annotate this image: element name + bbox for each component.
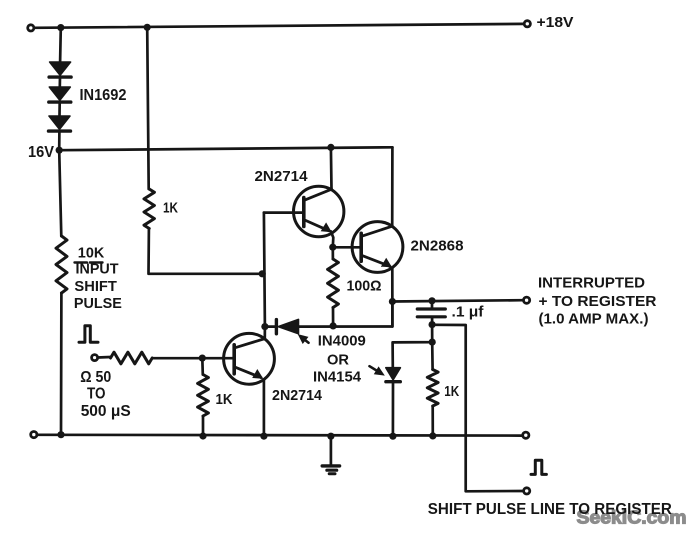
wire D1-D2 [58,77,61,87]
node output tap on emitter line [389,298,396,305]
wire Q1 emitter to node [331,231,333,247]
resistor R1 10K [56,236,67,293]
node 1K-right top [429,339,436,346]
wire clamp diode to rail [392,383,395,436]
svg-text:+18V: +18V [537,14,574,31]
node rail/left vertical [57,431,64,438]
resistor R6 1K (right) [427,370,438,407]
resistor R2 1K [144,189,154,229]
svg-text:IN4154: IN4154 [313,368,362,385]
wire 1K branch vertical from top rail [147,27,149,189]
node rail/1K left [199,432,206,439]
terminal input pulse [92,355,98,361]
terminal bottom-left [31,432,37,438]
diode D5 clamp [386,368,401,380]
diode D4 IN4009/IN4154 [276,319,298,333]
svg-text:16V: 16V [28,144,54,161]
node capacitor bottom [429,321,436,328]
wire D3 to 16V node [58,131,61,150]
transistor Q1 2N2714 (upper) [294,186,344,236]
svg-text:IN4009: IN4009 [318,333,366,350]
transistor Q3 2N2714 (lower) [224,333,275,384]
node top rail / 1K branch [144,24,151,31]
wire R6 bottom lead [431,406,434,436]
output pulse glyph [531,460,546,474]
wire 1K top lead (lower-left) [201,358,204,374]
node rail/ground [327,433,334,440]
node base / 1K junction [199,355,206,362]
wire D2-D3 [58,102,61,116]
svg-text:SHIFT PULSE LINE TO REGISTER: SHIFT PULSE LINE TO REGISTER [428,501,672,518]
node Q1 collector at 16V rail [327,144,334,151]
svg-text:1K: 1K [444,383,459,400]
resistor R3 100ohm [328,259,339,308]
svg-text:IN1692: IN1692 [80,87,127,104]
ground stub [330,436,333,464]
svg-text:10K: 10K [78,245,105,262]
svg-text:TO: TO [87,386,106,403]
wire emitter corner to diode anode [299,302,393,327]
svg-text:2N2714: 2N2714 [255,168,309,185]
node diode / Q3 collector / Q1 base branch [261,323,268,330]
wire base vertical of Q1 [264,213,265,327]
terminal top-left [28,25,34,31]
arrow pointer to D5 [375,367,384,375]
diode D2 IN1692 [49,87,70,100]
svg-text:1K: 1K [216,391,233,408]
resistor R5 1K (lower-left) [198,375,209,417]
wire Q3 collector vertical [263,327,266,339]
arrow pointer to D4 [299,335,308,343]
svg-text:Ω 50: Ω 50 [80,369,111,386]
wire 16V node down to 10K [59,150,61,236]
wire output to register [392,300,522,301]
svg-text:SHIFT: SHIFT [74,278,117,295]
wire Q1 base lead [264,211,302,214]
transistor Q2 2N2868 [352,222,403,273]
wire shift pulse line [434,325,522,492]
capacitor C1 .1uf [417,301,445,325]
svg-text:INTERRUPTED: INTERRUPTED [538,275,645,292]
svg-text:+ TO REGISTER: + TO REGISTER [539,293,657,310]
terminal shift pulse output [524,488,530,494]
wire Q3 emitter to bottom rail [263,380,266,437]
node top rail / diode chain [57,24,64,31]
svg-text:1K: 1K [163,200,178,217]
terminal bottom rail right [523,432,529,438]
wire R6 top lead [431,342,434,369]
node base-line junction [259,270,266,277]
wire Q2 emitter down [391,268,394,327]
wire bottom rail [37,433,522,437]
wire Q2 base lead [333,246,361,249]
wire to D1 [59,28,62,62]
svg-text:.1 μf: .1 μf [452,304,485,321]
svg-text:PULSE: PULSE [74,295,122,312]
node 16V [56,147,63,154]
wire +18V top rail [34,24,523,28]
wire 1K bottom to corner and right [149,229,264,274]
svg-text:INPUT: INPUT [76,261,119,278]
wire 16V rail corner down to Q2 collector [391,147,394,226]
svg-text:500 μS: 500 μS [81,403,131,420]
node rail/Q3 emitter [260,433,267,440]
wire diode cathode to node [265,325,277,328]
node Q1 emitter / Q2 base / 100ohm [329,244,336,251]
terminal +18V [524,21,530,27]
wire Q3 base lead [152,357,234,360]
svg-text:100Ω: 100Ω [347,277,382,294]
node 100ohm bottom on wire [330,322,337,329]
input pulse glyph [79,326,98,342]
label INPUT overline dashes [75,261,87,263]
diode D3 IN1692 [49,116,70,129]
terminal interrupted output [524,297,530,303]
wire 16V rail [59,147,392,150]
node rail/1K right [429,432,436,439]
svg-text:(1.0 AMP MAX.): (1.0 AMP MAX.) [539,311,649,328]
wire 100ohm top lead [331,247,334,259]
wire terminal to resistor [98,356,111,359]
wire Q1 collector to 16V rail [330,147,333,189]
node capacitor top [428,297,435,304]
diode D1 IN1692 [50,62,71,75]
svg-text:2N2714: 2N2714 [272,387,323,404]
wire cap bottom to clamp diode top [393,325,433,368]
ground symbol [322,466,339,474]
wire 100ohm bottom lead [332,308,335,326]
resistor R4 series input [111,352,153,364]
svg-text:OR: OR [327,352,349,369]
svg-text:2N2868: 2N2868 [411,237,464,254]
wire 10K to bottom rail [60,293,63,435]
wire 1K bottom lead to rail [202,416,205,436]
node rail/clamp diode [389,433,396,440]
